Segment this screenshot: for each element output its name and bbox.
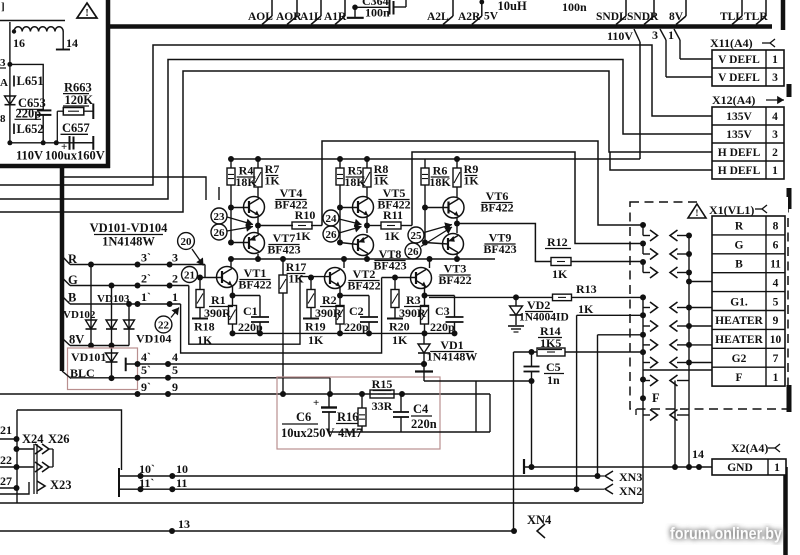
svg-text:1K: 1K xyxy=(264,174,280,188)
svg-text:3`: 3` xyxy=(141,251,151,265)
svg-text:BF422: BF422 xyxy=(438,273,471,287)
svg-text:XN3: XN3 xyxy=(619,470,642,484)
svg-text:BF423: BF423 xyxy=(373,259,406,273)
svg-text:8: 8 xyxy=(0,113,6,125)
svg-text:2: 2 xyxy=(772,147,778,159)
svg-text:G1.: G1. xyxy=(730,296,748,308)
svg-text:G: G xyxy=(735,240,744,252)
svg-text:X12(A4): X12(A4) xyxy=(712,93,755,107)
svg-text:390R: 390R xyxy=(315,306,342,320)
svg-text:26: 26 xyxy=(326,229,338,241)
svg-text:390R: 390R xyxy=(399,306,426,320)
svg-text:VD2: VD2 xyxy=(527,298,550,312)
svg-text:1N4148W: 1N4148W xyxy=(102,235,155,249)
svg-text:220n: 220n xyxy=(411,417,437,431)
svg-text:4`: 4` xyxy=(141,350,151,364)
svg-text:L651: L651 xyxy=(17,74,44,88)
svg-text:11: 11 xyxy=(176,476,187,490)
svg-text:9: 9 xyxy=(773,315,779,327)
svg-text:5: 5 xyxy=(773,296,779,308)
svg-text:R1: R1 xyxy=(211,293,226,307)
svg-text:1K: 1K xyxy=(463,174,479,188)
svg-text:R16: R16 xyxy=(337,410,359,424)
svg-text:110V: 110V xyxy=(607,29,633,43)
svg-text:R12: R12 xyxy=(547,235,568,249)
svg-text:135V: 135V xyxy=(726,111,752,123)
svg-text:3: 3 xyxy=(772,72,778,84)
svg-text:XN2: XN2 xyxy=(619,484,642,498)
svg-text:220p: 220p xyxy=(344,320,369,334)
svg-text:1K: 1K xyxy=(288,272,304,286)
svg-text:R13: R13 xyxy=(576,282,597,296)
svg-text:135V: 135V xyxy=(726,129,752,141)
svg-text:1n: 1n xyxy=(547,373,560,387)
svg-text:F: F xyxy=(735,372,742,384)
svg-text:A: A xyxy=(0,77,8,89)
svg-text:10: 10 xyxy=(770,334,782,346)
svg-text:14: 14 xyxy=(692,447,704,461)
svg-text:9: 9 xyxy=(172,380,178,394)
svg-text:R10: R10 xyxy=(295,208,316,222)
svg-text:A2L: A2L xyxy=(427,11,449,23)
svg-text:10`: 10` xyxy=(139,462,155,476)
svg-text:GND: GND xyxy=(727,462,753,474)
svg-text:25: 25 xyxy=(411,230,423,242)
svg-text:A1L: A1L xyxy=(300,11,322,23)
svg-text:100ux160V: 100ux160V xyxy=(45,149,105,163)
svg-text:F: F xyxy=(652,391,660,405)
svg-text:X11(A4): X11(A4) xyxy=(710,36,753,50)
svg-text:1N4148W: 1N4148W xyxy=(427,350,478,364)
svg-text:X26: X26 xyxy=(48,432,70,446)
svg-text:X2(A4): X2(A4) xyxy=(731,441,768,455)
svg-text:13: 13 xyxy=(178,517,190,531)
svg-text:6: 6 xyxy=(773,240,779,252)
svg-text:11: 11 xyxy=(770,258,781,270)
svg-text:4: 4 xyxy=(172,350,178,364)
svg-text:7: 7 xyxy=(773,353,779,365)
svg-text:VD104: VD104 xyxy=(136,332,171,346)
svg-text:R19: R19 xyxy=(305,320,326,334)
svg-text:3: 3 xyxy=(172,251,178,265)
svg-text:22: 22 xyxy=(0,453,12,467)
svg-text:5: 5 xyxy=(172,363,178,377)
svg-text:9`: 9` xyxy=(141,380,151,394)
svg-text:10: 10 xyxy=(176,462,188,476)
svg-text:TLL: TLL xyxy=(720,11,743,23)
svg-text:1N4004ID: 1N4004ID xyxy=(519,312,569,324)
svg-text:XN4: XN4 xyxy=(527,513,552,527)
svg-text:V DEFL: V DEFL xyxy=(718,72,760,84)
svg-text:BF423: BF423 xyxy=(483,242,516,256)
svg-text:VD102: VD102 xyxy=(63,309,96,321)
svg-text:BF422: BF422 xyxy=(480,201,513,215)
svg-text:1K: 1K xyxy=(295,229,311,243)
svg-text:!: ! xyxy=(85,8,88,19)
svg-text:H DEFL: H DEFL xyxy=(718,165,761,177)
svg-text:1K: 1K xyxy=(384,229,400,243)
svg-text:2: 2 xyxy=(172,272,178,286)
svg-text:G2: G2 xyxy=(732,353,747,365)
svg-text:H DEFL: H DEFL xyxy=(718,147,761,159)
svg-text:R: R xyxy=(735,221,744,233)
svg-text:4: 4 xyxy=(773,277,779,289)
svg-text:B: B xyxy=(735,258,743,270)
svg-text:1K: 1K xyxy=(578,302,594,316)
svg-text:18K: 18K xyxy=(235,175,257,189)
svg-text:8V: 8V xyxy=(669,11,684,23)
svg-text:21: 21 xyxy=(184,269,195,281)
svg-text:2`: 2` xyxy=(141,272,151,286)
svg-text:1: 1 xyxy=(172,290,178,304)
svg-text:110V: 110V xyxy=(16,149,43,163)
svg-text:23: 23 xyxy=(214,211,226,223)
svg-text:VD103: VD103 xyxy=(97,293,130,305)
svg-text:!: ! xyxy=(695,209,698,219)
svg-text:BF422: BF422 xyxy=(347,279,380,293)
svg-text:C3: C3 xyxy=(435,304,450,318)
svg-text:L652: L652 xyxy=(17,122,44,136)
svg-text:]: ] xyxy=(1,1,5,13)
svg-text:24: 24 xyxy=(326,213,338,225)
svg-text:SNDR: SNDR xyxy=(627,11,659,23)
svg-text:C6: C6 xyxy=(296,410,311,424)
svg-text:220p: 220p xyxy=(430,320,455,334)
svg-text:BF422: BF422 xyxy=(238,278,271,292)
svg-text:20: 20 xyxy=(181,236,193,248)
svg-text:1: 1 xyxy=(772,54,778,66)
svg-text:8V: 8V xyxy=(69,333,84,347)
svg-text:R11: R11 xyxy=(383,208,403,222)
svg-text:C657: C657 xyxy=(62,121,90,135)
svg-text:+: + xyxy=(313,397,319,409)
svg-text:18K: 18K xyxy=(429,175,451,189)
svg-text:VD101-VD104: VD101-VD104 xyxy=(90,221,169,235)
svg-text:C5: C5 xyxy=(546,360,561,374)
svg-text:R18: R18 xyxy=(194,320,215,334)
svg-text:R20: R20 xyxy=(389,320,410,334)
svg-text:C4: C4 xyxy=(413,402,429,416)
svg-text:18K: 18K xyxy=(344,175,366,189)
svg-text:26: 26 xyxy=(408,246,420,258)
svg-text:220p: 220p xyxy=(238,320,263,334)
svg-text:1: 1 xyxy=(668,28,674,42)
svg-text:HEATER: HEATER xyxy=(715,315,763,327)
svg-text:27: 27 xyxy=(0,474,12,488)
svg-text:33R: 33R xyxy=(372,399,393,413)
svg-text:C1: C1 xyxy=(243,304,258,318)
svg-text:4M7: 4M7 xyxy=(338,426,362,440)
svg-text:100n: 100n xyxy=(365,6,390,20)
svg-text:AOR: AOR xyxy=(276,11,302,23)
svg-text:390R: 390R xyxy=(204,306,231,320)
svg-text:SNDL: SNDL xyxy=(596,11,627,23)
svg-text:8: 8 xyxy=(773,221,779,233)
svg-text:100n: 100n xyxy=(562,0,587,14)
svg-text:A2R: A2R xyxy=(458,11,481,23)
svg-text:120K: 120K xyxy=(65,93,94,107)
svg-text:22: 22 xyxy=(158,319,170,331)
svg-text:C2: C2 xyxy=(349,304,364,318)
svg-text:AOL: AOL xyxy=(248,11,273,23)
svg-text:1K: 1K xyxy=(392,333,408,347)
svg-text:X23: X23 xyxy=(50,478,72,492)
svg-text:14: 14 xyxy=(66,36,78,50)
svg-text:11`: 11` xyxy=(139,476,154,490)
svg-text:220p: 220p xyxy=(16,107,42,121)
svg-text:1`: 1` xyxy=(141,290,151,304)
svg-text:10uH: 10uH xyxy=(498,0,527,13)
svg-text:10ux250V: 10ux250V xyxy=(281,426,334,440)
svg-text:3: 3 xyxy=(772,129,778,141)
svg-text:1K: 1K xyxy=(308,333,324,347)
svg-text:TLR: TLR xyxy=(744,11,768,23)
svg-text:1: 1 xyxy=(772,165,778,177)
svg-text:3: 3 xyxy=(652,28,658,42)
svg-text:X24: X24 xyxy=(22,432,44,446)
svg-text:X1(VL1): X1(VL1) xyxy=(709,203,754,217)
svg-text:4: 4 xyxy=(772,111,778,123)
svg-text:VD101: VD101 xyxy=(71,350,106,364)
svg-text:1: 1 xyxy=(774,462,780,474)
svg-text:R2: R2 xyxy=(322,293,337,307)
svg-text:16: 16 xyxy=(13,36,25,50)
svg-text:A1R: A1R xyxy=(324,11,347,23)
svg-text:3: 3 xyxy=(0,57,6,69)
svg-text:R15: R15 xyxy=(372,377,393,391)
svg-text:V DEFL: V DEFL xyxy=(718,54,760,66)
svg-text:R3: R3 xyxy=(406,293,421,307)
svg-text:26: 26 xyxy=(214,227,226,239)
svg-text:21: 21 xyxy=(0,423,12,437)
svg-text:1: 1 xyxy=(773,372,779,384)
svg-text:forum.onliner.by: forum.onliner.by xyxy=(670,525,783,543)
svg-text:BF423: BF423 xyxy=(267,243,300,257)
svg-text:5`: 5` xyxy=(141,363,151,377)
svg-text:HEATER: HEATER xyxy=(715,334,763,346)
svg-text:1K: 1K xyxy=(552,267,568,281)
